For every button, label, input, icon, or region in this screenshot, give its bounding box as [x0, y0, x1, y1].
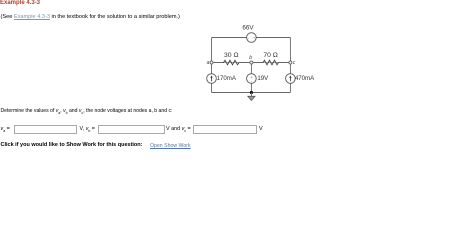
input box 1 — [14, 125, 78, 134]
svg-text:b: b — [249, 55, 252, 61]
current source I1 170mA — [207, 74, 237, 84]
subtitle line with textbook link — [1, 14, 180, 20]
voltage source V2 19V — [247, 74, 270, 84]
svg-text:a: a — [207, 60, 210, 66]
input box 2 — [98, 125, 165, 134]
wire middle vertical — [250, 63, 252, 93]
question text — [1, 108, 173, 115]
circuit schematic — [195, 20, 340, 110]
voltage source V1 66V top — [242, 24, 256, 42]
svg-text:70 Ω: 70 Ω — [263, 52, 278, 59]
open show work link — [150, 143, 191, 149]
show work line — [1, 142, 143, 148]
node a — [207, 60, 213, 66]
svg-text:c: c — [293, 60, 296, 66]
input box 3 — [193, 125, 257, 134]
svg-text:66V: 66V — [242, 24, 254, 31]
node b — [249, 55, 253, 64]
wire middle horizontal — [212, 62, 291, 64]
junction dot — [250, 91, 253, 94]
wire left vertical — [211, 38, 213, 93]
resistor R1 30 ohm — [224, 52, 240, 65]
current source I2 470mA — [286, 74, 316, 84]
svg-text:19V: 19V — [257, 75, 269, 82]
wire bottom — [212, 92, 291, 94]
svg-text:470mA: 470mA — [295, 75, 315, 82]
resistor R2 70 ohm — [263, 52, 279, 65]
wire right vertical — [289, 38, 291, 93]
answer row — [1, 126, 10, 133]
ground — [248, 93, 255, 101]
svg-text:30 Ω: 30 Ω — [224, 52, 239, 59]
wire top — [212, 37, 291, 39]
node c — [289, 60, 296, 66]
title Example 4.3-3 — [0, 0, 40, 6]
svg-text:170mA: 170mA — [217, 75, 237, 82]
